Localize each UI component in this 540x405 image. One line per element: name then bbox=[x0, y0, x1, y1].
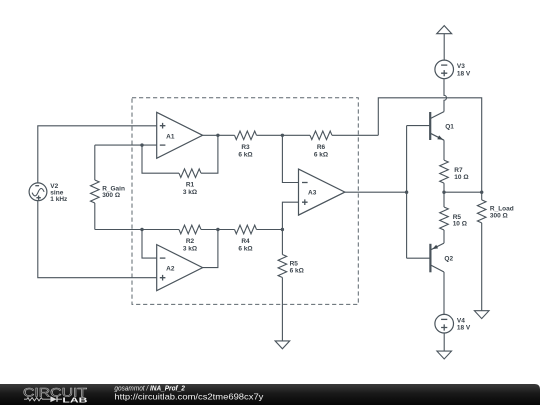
svg-text:A2: A2 bbox=[166, 266, 175, 273]
wire Q1 collector to V3 (hop over feedback) bbox=[444, 79, 447, 112]
svg-text:1 kHz: 1 kHz bbox=[50, 196, 68, 203]
wire Q2 base bbox=[407, 257, 431, 259]
wire A3 - input bbox=[282, 135, 298, 182]
svg-text:Q2: Q2 bbox=[444, 256, 453, 263]
resistor R1 bbox=[179, 169, 201, 178]
resistor R5 (10 Ohm) bbox=[440, 192, 449, 243]
logo resistor-diode glyph bbox=[24, 396, 62, 402]
svg-text:A1: A1 bbox=[166, 133, 175, 140]
wire R1 right to A1 output bbox=[201, 135, 218, 173]
wire base drive vertical rail bbox=[406, 126, 408, 259]
svg-text:R4: R4 bbox=[241, 238, 250, 245]
label R2 3 kOhm bbox=[183, 238, 197, 253]
node A1 inverting input junction bbox=[140, 143, 143, 146]
node A2 output bbox=[216, 228, 219, 231]
op-amp A2 bbox=[157, 245, 203, 291]
wire R2 to R4 (A2 output rail) bbox=[201, 229, 235, 231]
op-amp A3 bbox=[299, 169, 345, 215]
resistor R3 bbox=[235, 131, 257, 140]
svg-text:R1: R1 bbox=[186, 182, 195, 189]
wire node to A2 - input bbox=[142, 230, 157, 259]
transistor Q2 bbox=[430, 243, 444, 272]
svg-text:3 kΩ: 3 kΩ bbox=[183, 245, 197, 252]
wire V2 top to A1 + input bbox=[38, 126, 157, 183]
resistor R2 bbox=[179, 225, 201, 234]
footer bar bbox=[0, 384, 540, 405]
label V4 18 V bbox=[457, 318, 471, 332]
svg-text:18 V: 18 V bbox=[457, 70, 471, 77]
wire V2 bottom to A2 + input bbox=[38, 201, 157, 278]
node base drive bbox=[405, 191, 408, 194]
label R1 3 kOhm bbox=[183, 182, 197, 197]
svg-text:300 Ω: 300 Ω bbox=[490, 213, 508, 220]
svg-text:300 Ω: 300 Ω bbox=[102, 192, 120, 199]
node emitter output bbox=[442, 191, 445, 194]
voltage source V4 bbox=[435, 314, 454, 333]
wire A3 output to base rail bbox=[345, 191, 407, 193]
resistor R7 bbox=[440, 160, 449, 192]
label R_Gain 300 Ohm bbox=[102, 185, 125, 199]
resistor R4 bbox=[235, 225, 257, 234]
resistor R_Load bbox=[477, 192, 486, 311]
voltage source V2 bbox=[29, 183, 47, 201]
wire Q1 base bbox=[407, 125, 431, 127]
svg-text:R_Load: R_Load bbox=[490, 206, 514, 213]
node A3 noninverting junction bbox=[281, 228, 284, 231]
INA boundary dashed box bbox=[132, 98, 358, 305]
wire R_Gain bottom to R2 (A2 top rail) bbox=[95, 229, 179, 231]
wire Q1 emitter to R7 bbox=[443, 140, 445, 160]
wire R3 to A3 - node bbox=[257, 134, 283, 136]
wire A3 + input bbox=[282, 202, 298, 229]
svg-text:R3: R3 bbox=[241, 144, 250, 151]
svg-text:LAB: LAB bbox=[62, 395, 88, 404]
svg-text:18 V: 18 V bbox=[457, 325, 471, 332]
svg-text:6 kΩ: 6 kΩ bbox=[238, 245, 252, 252]
wire emitter node to R_Load bbox=[444, 191, 482, 193]
resistor R_Gain bbox=[91, 145, 100, 229]
wire Q2 collector to V4 bbox=[443, 272, 445, 315]
wire A1 output to R3 bbox=[203, 134, 235, 136]
svg-text:V4: V4 bbox=[457, 318, 465, 325]
label V2 sine 1 kHz bbox=[50, 183, 68, 203]
label R7 10 Ohm bbox=[454, 167, 468, 181]
wire R4 to A3 + node bbox=[257, 229, 283, 231]
wire R6 feedback to R_Load top bbox=[378, 98, 481, 192]
svg-text:V3: V3 bbox=[457, 63, 465, 70]
node A2 inverting input junction bbox=[140, 228, 143, 231]
label R4 6 kOhm bbox=[238, 238, 252, 253]
svg-text:Q1: Q1 bbox=[445, 124, 454, 131]
svg-text:gosammot / INA_Prof_2: gosammot / INA_Prof_2 bbox=[114, 383, 184, 392]
wire node to R1 left bbox=[142, 145, 179, 173]
label R6 6 kOhm bbox=[314, 144, 328, 159]
svg-text:3 kΩ: 3 kΩ bbox=[183, 189, 197, 196]
transistor Q1 bbox=[430, 112, 444, 141]
wire V3 to power flag bbox=[443, 34, 445, 60]
node A1 output bbox=[216, 134, 219, 137]
op-amp A1 bbox=[157, 112, 203, 158]
svg-text:A3: A3 bbox=[308, 190, 317, 197]
label R3 6 kOhm bbox=[238, 144, 252, 159]
svg-text:10 Ω: 10 Ω bbox=[453, 221, 467, 228]
label R5 10 Ohm bbox=[453, 214, 467, 228]
svg-text:10 Ω: 10 Ω bbox=[454, 174, 468, 181]
node A3 inverting junction bbox=[281, 134, 284, 137]
svg-text:R2: R2 bbox=[186, 238, 195, 245]
ground at V4 bbox=[437, 351, 452, 359]
wire R_Gain top to A1 - input bbox=[95, 144, 157, 146]
ground at R5 bbox=[275, 341, 290, 349]
svg-text:R5: R5 bbox=[290, 260, 299, 267]
ground at R_Load bbox=[474, 311, 489, 319]
wire V4 to ground bbox=[443, 333, 445, 351]
label R5 6 kOhm bbox=[290, 260, 304, 274]
resistor R5 (6 k) bbox=[278, 230, 287, 341]
voltage source V3 bbox=[435, 60, 454, 79]
svg-text:6 kΩ: 6 kΩ bbox=[290, 268, 304, 275]
svg-text:R6: R6 bbox=[317, 144, 326, 151]
label V3 18 V bbox=[457, 63, 471, 77]
node R_Load top bbox=[480, 191, 483, 194]
svg-text:http://circuitlab.com/cs2tme69: http://circuitlab.com/cs2tme698cx7y bbox=[114, 393, 264, 402]
label R_Load 300 Ohm bbox=[490, 206, 514, 220]
resistor R6 bbox=[282, 131, 378, 140]
power flag VCC bbox=[437, 26, 452, 34]
wire A2 output up to node bbox=[203, 230, 218, 268]
svg-text:6 kΩ: 6 kΩ bbox=[314, 151, 328, 158]
svg-text:6 kΩ: 6 kΩ bbox=[238, 151, 252, 158]
